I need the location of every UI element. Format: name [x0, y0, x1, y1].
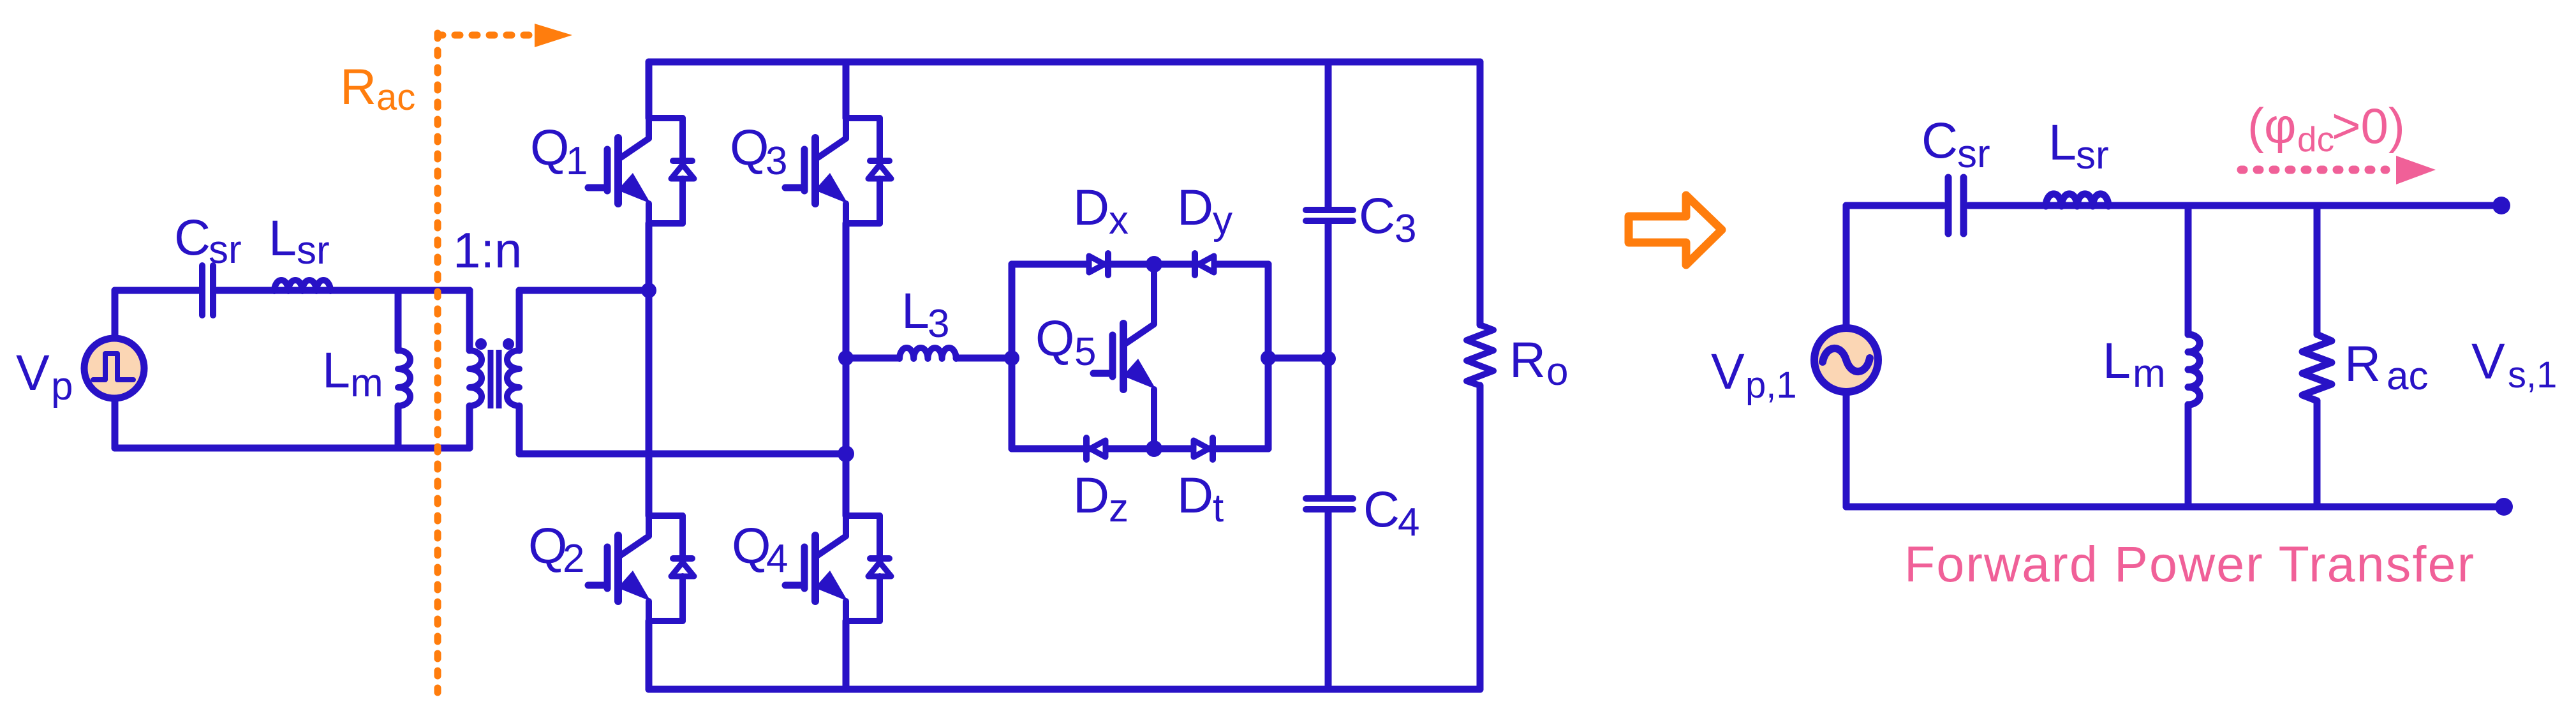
- label L3: [901, 282, 949, 346]
- capacitor Csr (left): [202, 266, 213, 315]
- inductor Lsr (equivalent): [2046, 194, 2108, 206]
- wire output capacitor column: [1325, 62, 1332, 689]
- svg-text:ac: ac: [376, 77, 415, 118]
- svg-text:L: L: [322, 341, 350, 398]
- svg-text:Q: Q: [732, 517, 771, 574]
- inductor L3: [899, 348, 956, 359]
- svg-text:3: 3: [928, 302, 949, 346]
- node dot right leg / L3 tap: [838, 350, 854, 366]
- voltage source Vp (pulse source): [84, 338, 144, 398]
- label Rac (orange): [340, 58, 415, 118]
- svg-text:ac: ac: [2387, 354, 2428, 398]
- transistor Q1 (IGBT): [588, 118, 651, 223]
- capacitor C4: [1306, 498, 1353, 509]
- svg-text:m: m: [2133, 352, 2166, 396]
- voltage source Vp1 (sine source): [1814, 328, 1878, 392]
- wire bridge top rail: [649, 59, 1480, 66]
- wire L3 left segment: [846, 355, 1012, 362]
- svg-text:R: R: [2344, 335, 2381, 392]
- transistor Q5 (IGBT): [1093, 264, 1156, 449]
- wire Vp source vertical leads: [112, 290, 119, 448]
- label Vs,1: [2471, 333, 2557, 396]
- svg-text:C: C: [174, 209, 211, 266]
- label Ro: [1509, 331, 1568, 394]
- svg-text:φ: φ: [2264, 98, 2297, 154]
- svg-text:dc: dc: [2297, 119, 2334, 159]
- label Q5: [1035, 310, 1096, 374]
- svg-text:3: 3: [766, 139, 787, 183]
- label Rac (equivalent): [2344, 335, 2428, 398]
- svg-text:V: V: [1711, 343, 1745, 400]
- diode Dz: [1086, 438, 1106, 460]
- svg-text:p,1: p,1: [1745, 364, 1797, 406]
- svg-text:s,1: s,1: [2508, 354, 2557, 396]
- svg-text:2: 2: [563, 537, 584, 581]
- node dot output stack midpoint: [1321, 351, 1336, 366]
- diode antiparallel of Q1: [649, 118, 694, 223]
- svg-text:D: D: [1177, 179, 1213, 236]
- wire bottom rail (equivalent circuit): [1846, 504, 2504, 511]
- svg-text:L: L: [2048, 114, 2076, 170]
- wire secondary bottom to bridge right leg: [519, 451, 846, 458]
- svg-text:C: C: [1921, 112, 1958, 168]
- wire top-left horizontal (Vp to transformer primary): [115, 287, 470, 294]
- diode antiparallel of Q4: [846, 516, 891, 621]
- label Dx: [1073, 179, 1129, 243]
- inductor Lm (equivalent): [2188, 206, 2200, 507]
- node dot bridge bottom (Q5 emitter): [1146, 440, 1162, 457]
- svg-text:sr: sr: [209, 228, 242, 272]
- svg-text:>0): >0): [2332, 98, 2405, 154]
- svg-text:y: y: [1213, 198, 1232, 243]
- wire Q5 bridge box outline: [1012, 264, 1268, 449]
- diode antiparallel of Q2: [649, 516, 694, 621]
- transformer T1 core: [491, 350, 499, 408]
- svg-text:z: z: [1109, 486, 1129, 530]
- node dot bridge right: [1261, 350, 1276, 366]
- capacitor Csr (equivalent): [1948, 177, 1964, 234]
- label Vp,1: [1711, 343, 1797, 406]
- inductor Lm (left, magnetizing): [398, 290, 410, 448]
- node dot bridge top (Q5 collector): [1146, 256, 1162, 273]
- label Vp: [16, 344, 73, 408]
- svg-text:4: 4: [1398, 500, 1419, 544]
- label Dz: [1073, 467, 1129, 530]
- transistor Q2 (IGBT): [588, 516, 651, 621]
- label Q1: [530, 119, 588, 183]
- resistor Rac (equivalent): [2302, 206, 2332, 507]
- wire bridge left leg: [646, 62, 653, 689]
- boundary line Rac (orange dashed) with arrow: [438, 24, 572, 692]
- svg-text:o: o: [1546, 350, 1568, 394]
- diode Dy: [1195, 253, 1214, 275]
- label Dy: [1177, 179, 1232, 243]
- diode Dt: [1194, 438, 1213, 460]
- terminal dot Vs,1 top: [2492, 197, 2510, 214]
- svg-text:C: C: [1363, 481, 1400, 537]
- svg-text:5: 5: [1074, 330, 1096, 374]
- transistor Q4 (IGBT): [785, 516, 848, 621]
- capacitor C3: [1306, 210, 1353, 221]
- svg-text:R: R: [1509, 331, 1546, 388]
- svg-text:p: p: [51, 364, 73, 408]
- label Q3: [730, 119, 787, 183]
- transformer T1 secondary winding: [507, 290, 519, 454]
- label Lsr (left): [269, 209, 330, 273]
- svg-text:x: x: [1109, 198, 1129, 243]
- transformer polarity dot secondary: [503, 338, 514, 350]
- transformer T1 primary winding: [470, 290, 482, 448]
- node dot secondary-bottom / right leg: [838, 445, 854, 462]
- label Q2: [528, 517, 584, 581]
- svg-text:C: C: [1359, 187, 1395, 244]
- label Csr (equivalent): [1921, 112, 1990, 176]
- inductor Lsr (left): [274, 280, 330, 291]
- arrow forward power flow (pink dashed): [2241, 156, 2436, 184]
- transformer polarity dot primary: [475, 338, 487, 350]
- wire secondary top to bridge left leg: [519, 287, 649, 294]
- svg-text:D: D: [1073, 467, 1109, 523]
- svg-text:4: 4: [766, 537, 788, 581]
- wire top rail (equivalent circuit): [1846, 202, 2500, 209]
- wire source column (equivalent circuit): [1843, 206, 1850, 507]
- svg-text:Q: Q: [1035, 310, 1074, 366]
- label Csr (left): [174, 209, 242, 272]
- svg-text:Forward Power Transfer: Forward Power Transfer: [1904, 535, 2474, 592]
- svg-text:Q: Q: [730, 119, 769, 176]
- label Q4: [732, 517, 788, 581]
- label C4: [1363, 481, 1419, 544]
- svg-text:Q: Q: [528, 517, 567, 574]
- svg-text:L: L: [269, 209, 297, 266]
- svg-text:3: 3: [1395, 207, 1416, 251]
- label 1:n: [453, 222, 522, 278]
- svg-text:Q: Q: [530, 119, 569, 176]
- arrow circuit-transformation (orange block arrow): [1629, 195, 1722, 265]
- svg-text:D: D: [1073, 179, 1109, 236]
- wire bridge right leg: [843, 62, 850, 689]
- svg-text:t: t: [1213, 486, 1224, 530]
- caption Forward Power Transfer: [1904, 535, 2474, 592]
- diode antiparallel of Q3: [846, 118, 891, 223]
- svg-text:(: (: [2247, 98, 2264, 154]
- label Lm (left): [322, 341, 383, 405]
- svg-text:D: D: [1177, 467, 1213, 523]
- svg-text:V: V: [2471, 333, 2505, 389]
- svg-text:sr: sr: [2076, 133, 2109, 177]
- svg-text:L: L: [901, 282, 929, 339]
- node dot secondary-top / left leg: [641, 283, 656, 298]
- svg-text:m: m: [350, 361, 383, 405]
- svg-text:1:n: 1:n: [453, 222, 522, 278]
- transistor Q3 (IGBT): [785, 118, 848, 223]
- svg-text:L: L: [2103, 332, 2131, 389]
- label Lsr (equivalent): [2048, 114, 2109, 177]
- resistor Ro: [1467, 325, 1493, 385]
- svg-text:sr: sr: [1957, 132, 1990, 176]
- svg-text:V: V: [16, 344, 50, 401]
- wire bridge bottom rail: [649, 686, 1480, 693]
- terminal dot Vs,1 bottom: [2495, 498, 2513, 516]
- svg-text:sr: sr: [297, 228, 330, 273]
- label phase condition (phi_dc &gt; 0): [2247, 98, 2405, 159]
- diode Dx: [1089, 253, 1108, 275]
- node dot bridge left: [1004, 350, 1019, 366]
- wire bottom-left horizontal: [115, 445, 470, 452]
- label Lm (equivalent): [2103, 332, 2166, 396]
- svg-text:R: R: [340, 58, 376, 115]
- wire load branch: [1477, 62, 1484, 689]
- svg-text:1: 1: [566, 139, 588, 183]
- label Dt: [1177, 467, 1224, 530]
- label C3: [1359, 187, 1416, 251]
- wire bridge right to output stack: [1268, 355, 1328, 362]
